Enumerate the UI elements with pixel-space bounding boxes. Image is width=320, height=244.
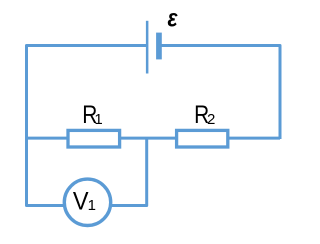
wire: top right segment and right vertical xyxy=(161,46,281,140)
battery cell long plate xyxy=(146,21,149,74)
resistor R1 xyxy=(68,130,120,147)
svg-text:2: 2 xyxy=(207,111,215,128)
svg-text:1: 1 xyxy=(94,111,102,128)
voltmeter V1 circle xyxy=(64,179,110,225)
wire: middle horizontal (through R1, node A, R2) xyxy=(27,137,281,140)
svg-text:ε: ε xyxy=(168,5,179,33)
battery cell short thick plate xyxy=(156,33,162,60)
svg-text:1: 1 xyxy=(88,197,96,214)
wire: outer loop left (top-left to bottom, across bottom, up to mid node) xyxy=(27,46,149,206)
svg-text:V: V xyxy=(73,188,89,216)
resistor R2 xyxy=(177,130,228,147)
